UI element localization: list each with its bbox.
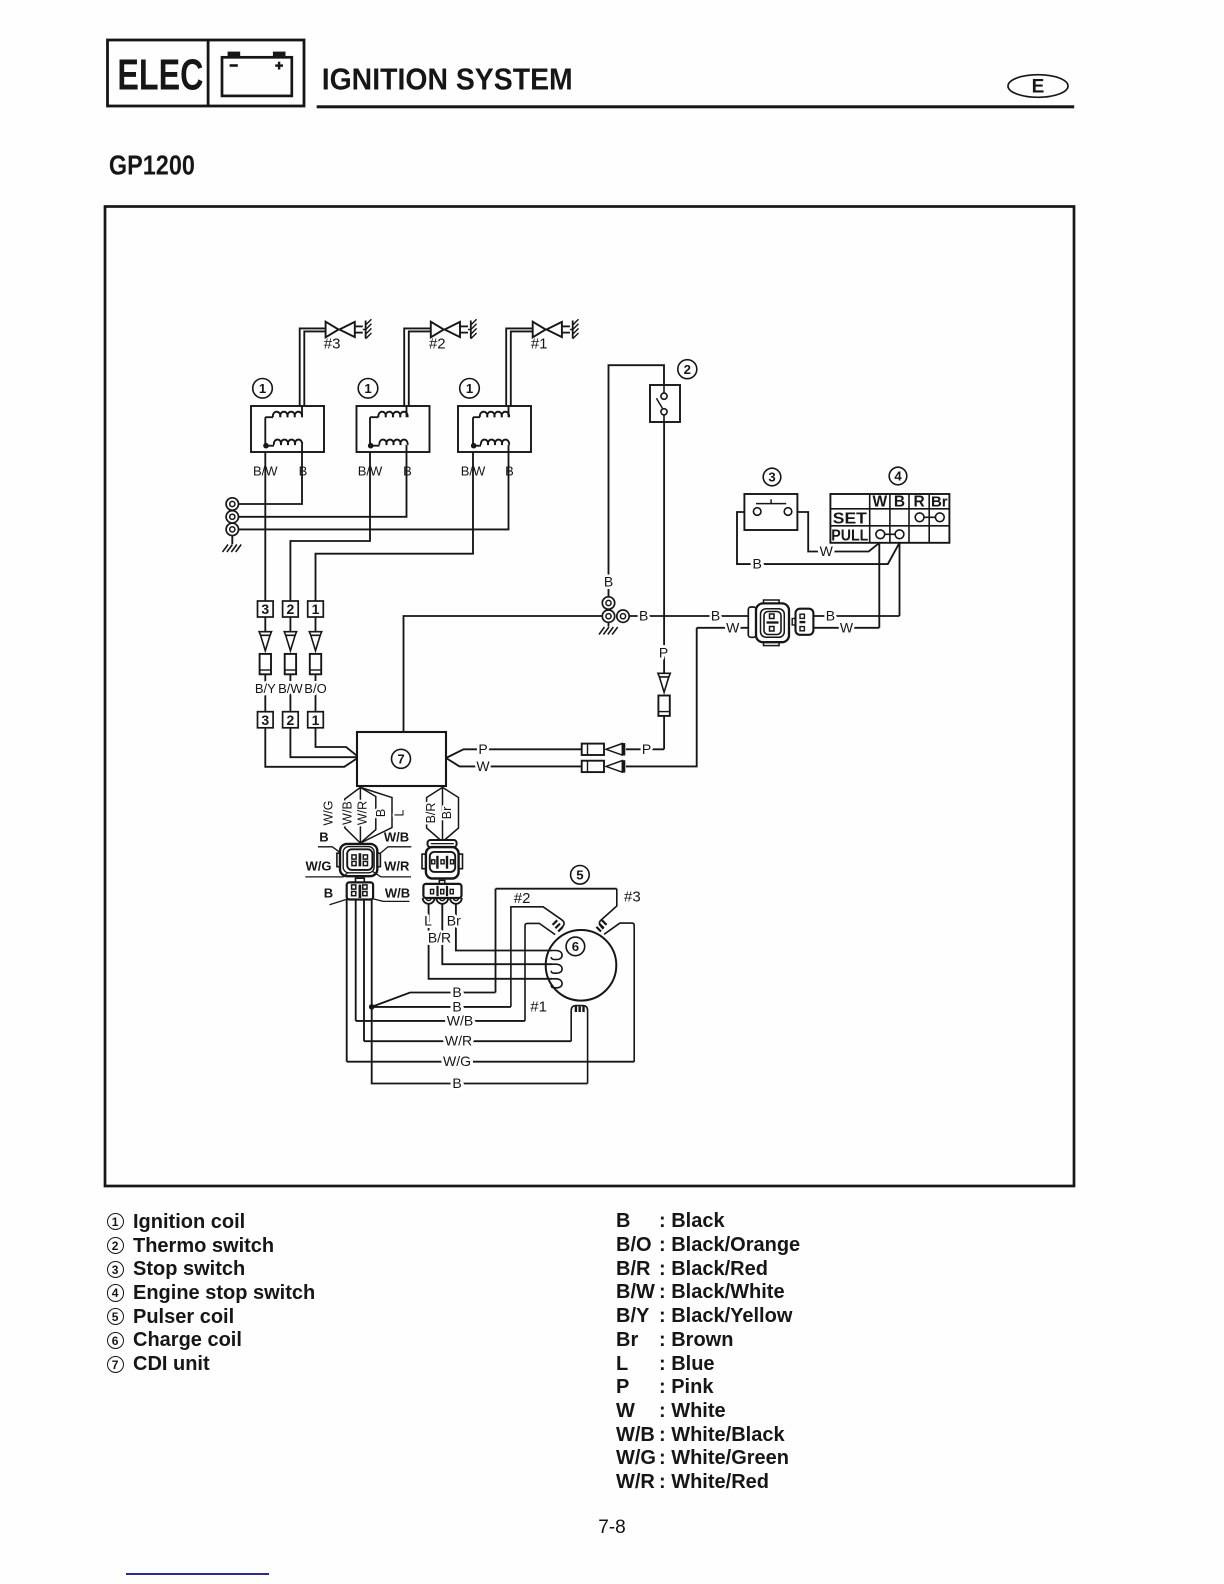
svg-text:2: 2 [287,601,295,617]
svg-text:#1: #1 [531,335,548,352]
svg-text:4: 4 [894,469,902,484]
svg-text:Br: Br [440,807,454,820]
svg-text:R: R [913,493,924,510]
svg-text:#3: #3 [324,335,341,352]
svg-text:B: B [711,608,720,624]
svg-text:1: 1 [312,601,320,617]
svg-text:1: 1 [312,712,320,728]
svg-text:#2: #2 [514,890,531,907]
svg-text:B: B [299,463,308,478]
svg-text:2: 2 [287,712,295,728]
svg-text:1: 1 [466,381,473,396]
svg-text:3: 3 [261,601,269,617]
svg-text:L: L [392,809,406,816]
svg-text:#1: #1 [530,999,547,1016]
svg-text:W/B: W/B [340,801,354,825]
svg-text:P: P [642,741,651,757]
svg-text:PULL: PULL [831,527,868,544]
svg-text:5: 5 [576,867,583,882]
svg-text:B: B [639,608,648,624]
svg-text:Br: Br [447,913,461,929]
svg-text:6: 6 [572,939,579,954]
svg-text:GP1200: GP1200 [109,149,195,180]
svg-text:ELEC: ELEC [117,51,203,100]
svg-text:B: B [826,608,835,624]
svg-text:1: 1 [259,381,266,396]
svg-text:B: B [374,809,388,817]
svg-text:B/W: B/W [278,681,303,696]
svg-text:B/R: B/R [428,930,451,946]
svg-text:W/B: W/B [384,829,409,844]
svg-text:W/G: W/G [306,858,332,873]
svg-text:B/O: B/O [304,681,326,696]
svg-text:B: B [505,463,514,478]
svg-text:W/B: W/B [385,885,410,900]
svg-text:7: 7 [397,751,404,766]
svg-text:Br: Br [931,493,948,510]
svg-text:B: B [604,574,613,590]
svg-text:SET: SET [833,510,868,527]
svg-text:E: E [1032,76,1045,97]
svg-text:B: B [753,556,762,572]
svg-text:B: B [324,885,333,900]
svg-text:L: L [424,913,432,929]
svg-text:W: W [840,619,854,635]
svg-text:W/B: W/B [447,1012,473,1028]
svg-text:W/R: W/R [384,858,410,873]
svg-text:W: W [820,543,834,559]
svg-text:P: P [659,645,668,661]
svg-text:W: W [872,493,887,510]
svg-text:W/R: W/R [355,801,369,825]
svg-text:B/Y: B/Y [255,681,276,696]
svg-text:W/G: W/G [321,801,335,826]
svg-text:2: 2 [684,362,691,377]
svg-text:W/G: W/G [443,1053,471,1069]
svg-text:B: B [894,493,905,510]
svg-text:3: 3 [768,470,775,485]
svg-text:W/R: W/R [445,1033,472,1049]
svg-text:B/R: B/R [424,803,438,824]
svg-text:B: B [452,1075,461,1091]
svg-text:3: 3 [261,712,269,728]
svg-text:P: P [478,741,487,757]
svg-text:B: B [403,463,412,478]
svg-text:1: 1 [364,381,371,396]
svg-text:W: W [726,619,740,635]
svg-text:#3: #3 [624,888,641,905]
svg-text:#2: #2 [429,335,446,352]
svg-text:W: W [476,758,490,774]
svg-text:B: B [319,829,328,844]
svg-text:IGNITION SYSTEM: IGNITION SYSTEM [322,62,573,97]
